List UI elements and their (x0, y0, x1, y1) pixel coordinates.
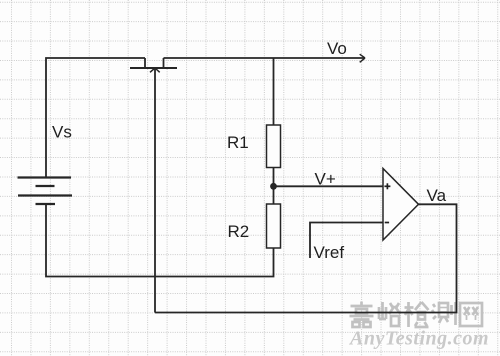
svg-text:AnyTesting.com: AnyTesting.com (348, 328, 489, 350)
svg-text:R2: R2 (228, 222, 250, 241)
svg-text:Vs: Vs (52, 123, 72, 142)
svg-text:Vref: Vref (314, 243, 345, 262)
svg-text:V+: V+ (315, 170, 336, 189)
svg-text:Vo: Vo (327, 39, 347, 58)
svg-text:Va: Va (427, 186, 447, 205)
svg-text:R1: R1 (227, 133, 249, 152)
